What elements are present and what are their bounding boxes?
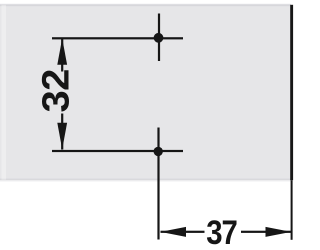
hole H2 bottom crosshair horizontal / 32 bottom extension line (52, 150, 183, 152)
dimension 37 arrow left (160, 227, 186, 237)
plate bottom edge (0, 179, 291, 181)
dimension 32 line lower segment (61, 114, 63, 150)
dimension 37 line left segment (161, 231, 205, 233)
hole H2 bottom drill hole (154, 147, 163, 156)
plate left edge highlight (2, 5, 7, 180)
hole H2 bottom crosshair vertical / 37 left extension line (157, 128, 159, 240)
dimension 32 arrow down (57, 123, 67, 150)
hole H1 top drill hole (154, 33, 164, 43)
dimension 37 line right segment (241, 231, 291, 233)
dimension 37 arrow right (266, 227, 292, 237)
hole H1 top crosshair horizontal / 32 top extension line (52, 37, 183, 39)
plate right edge line (290, 5, 293, 180)
37 right extension line below plate (291, 180, 293, 240)
svg-text:32: 32 (35, 69, 77, 112)
svg-text:37: 37 (206, 213, 237, 250)
plate top edge (0, 4, 291, 5)
hole H1 top crosshair vertical (158, 14, 160, 62)
mounting plate body (0, 5, 291, 181)
dimension 32 line upper segment (61, 39, 63, 72)
dimension 32 arrow up (57, 38, 67, 65)
